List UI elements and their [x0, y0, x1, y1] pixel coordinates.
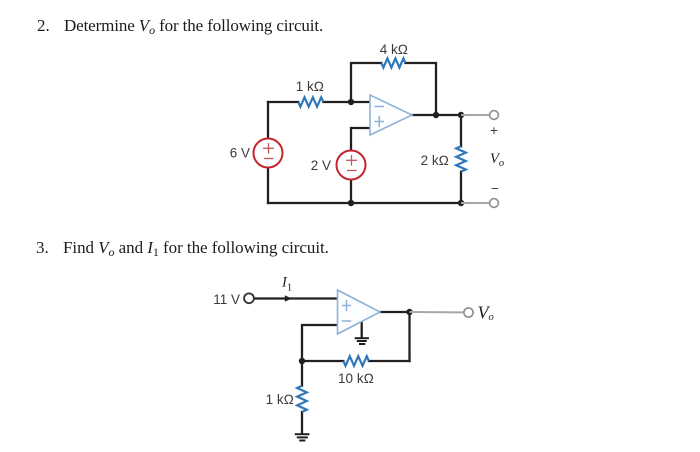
svg-text:2 kΩ: 2 kΩ — [421, 153, 449, 168]
svg-text:+: + — [490, 123, 498, 138]
svg-text:1 kΩ: 1 kΩ — [266, 392, 294, 407]
svg-text:3.: 3. — [36, 238, 49, 257]
svg-text:10 kΩ: 10 kΩ — [338, 371, 374, 386]
svg-text:6 V: 6 V — [230, 146, 250, 161]
svg-text:2 V: 2 V — [311, 158, 331, 173]
svg-text:Determine Vo for the following: Determine Vo for the following circuit. — [64, 16, 323, 37]
svg-text:4 kΩ: 4 kΩ — [380, 42, 408, 57]
svg-text:11 V: 11 V — [213, 292, 240, 307]
svg-text:1 kΩ: 1 kΩ — [296, 79, 324, 94]
svg-text:−: − — [491, 181, 499, 196]
svg-text:Find Vo and I1 for the followi: Find Vo and I1 for the following circuit… — [63, 238, 329, 259]
svg-text:2.: 2. — [37, 16, 50, 35]
